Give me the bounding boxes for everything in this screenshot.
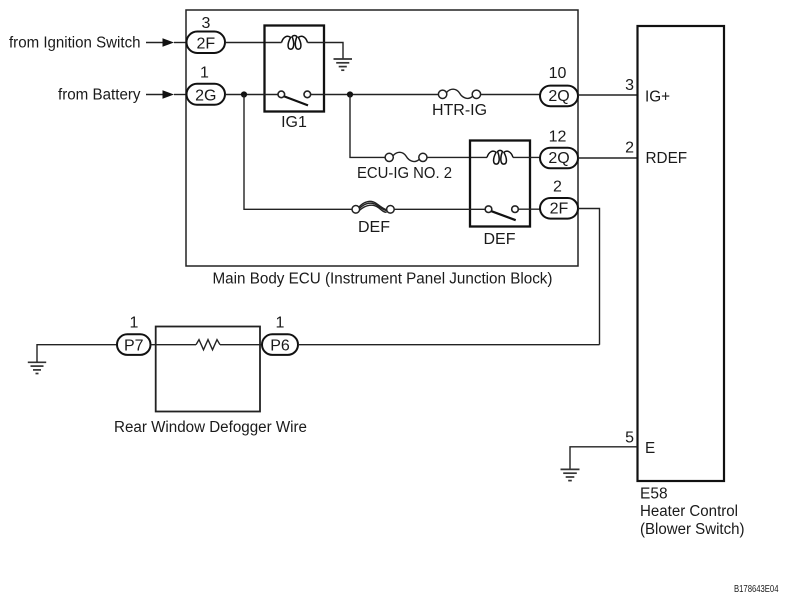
svg-text:HTR-IG: HTR-IG (432, 102, 487, 119)
svg-text:2G: 2G (195, 87, 216, 104)
wire: DEF breaker to DEF relay switch (394, 208, 485, 210)
ground (rear defogger wire, left) (28, 362, 46, 373)
svg-text:2Q: 2Q (548, 88, 569, 105)
wire: resistor to P6 (220, 344, 262, 346)
svg-text:Rear Window Defogger Wire: Rear Window Defogger Wire (114, 419, 307, 436)
svg-text:10: 10 (549, 65, 567, 82)
pin 10 of connector 2Q (549, 65, 567, 82)
svg-text:3: 3 (202, 15, 211, 32)
connector P6 (262, 334, 298, 355)
svg-text:2Q: 2Q (548, 150, 569, 167)
fuse HTR-IG (438, 89, 480, 98)
connector block E58 outline (638, 26, 725, 481)
label: from Battery (58, 87, 141, 104)
wire: ignition switch lead with arrow (146, 38, 187, 46)
ground (IG1 coil) (334, 59, 353, 70)
label: Heater Control (640, 503, 738, 520)
defogger wire box (156, 327, 260, 412)
wire: 2F pin 2 down to defogger net (578, 209, 600, 345)
wire: DEF switch to connector 2F pin 2 (518, 208, 540, 210)
svg-text:2: 2 (553, 178, 562, 195)
wire: P6 to 2F net (298, 344, 600, 346)
svg-text:from Ignition Switch: from Ignition Switch (9, 35, 141, 52)
relay IG1 coil (282, 36, 308, 50)
wire: battery junction to DEF circuit breaker (244, 95, 352, 210)
pin 12 of connector 2Q (549, 129, 567, 146)
pin 5 of E58 (625, 429, 634, 446)
svg-text:3: 3 (625, 77, 634, 94)
relay IG1 box (265, 26, 325, 112)
svg-text:DEF: DEF (484, 231, 516, 248)
wire: ground to connector P7 (37, 345, 117, 363)
pin 2 of connector 2F (output) (553, 178, 562, 195)
pin 1 of connector 2G (200, 65, 209, 82)
connector 2Q pin 12 (RDEF feed) (540, 148, 578, 169)
svg-text:(Blower Switch): (Blower Switch) (640, 521, 745, 538)
svg-text:RDEF: RDEF (646, 150, 688, 167)
svg-text:2: 2 (625, 140, 634, 157)
wire: 2Q pin 10 to E58 pin 3 (578, 94, 638, 96)
wire: 2F to IG1 coil (225, 42, 282, 44)
connector P7 (117, 334, 151, 355)
label: E (E58 terminal) (645, 440, 655, 457)
svg-text:ECU-IG NO. 2: ECU-IG NO. 2 (357, 165, 452, 182)
svg-text:IG+: IG+ (645, 88, 670, 105)
pin 1 of connector P7 (130, 315, 139, 332)
wire: E58 pin 5 (E) to ground (570, 447, 638, 470)
svg-text:IG1: IG1 (281, 114, 307, 131)
relay DEF box (470, 141, 530, 227)
svg-text:B178643E04: B178643E04 (734, 584, 779, 595)
ground (E58 pin E) (561, 469, 580, 480)
svg-text:1: 1 (130, 315, 139, 332)
label: DEF (circuit breaker) (358, 219, 390, 236)
svg-text:12: 12 (549, 129, 567, 146)
pin 3 of connector 2F (top) (202, 15, 211, 32)
wire: 2Q pin 12 to E58 pin 2 (578, 157, 638, 159)
svg-text:Main Body ECU (Instrument Pane: Main Body ECU (Instrument Panel Junction… (213, 270, 553, 287)
svg-text:P6: P6 (270, 337, 290, 354)
svg-text:DEF: DEF (358, 219, 390, 236)
label: IG1 (281, 114, 307, 131)
label: from Ignition Switch (9, 35, 141, 52)
connector 2F pin 2 (defogger feed) (540, 198, 578, 219)
wire: ECU-IG fuse to DEF relay coil (427, 156, 487, 158)
svg-text:P7: P7 (124, 337, 144, 354)
svg-text:2F: 2F (196, 35, 215, 52)
label: IG+ (E58 terminal) (645, 88, 670, 105)
pin 1 of connector P6 (276, 315, 285, 332)
resistor (defogger grid element) (196, 340, 220, 350)
svg-text:2F: 2F (550, 201, 569, 218)
relay DEF coil (487, 150, 513, 164)
label: RDEF (E58 terminal) (646, 150, 688, 167)
wire: HTR-IG fuse to connector 2Q pin 10 (481, 94, 540, 96)
label: Rear Window Defogger Wire (114, 419, 307, 436)
svg-text:from Battery: from Battery (58, 87, 141, 104)
circuit breaker DEF (352, 201, 394, 213)
junction block outline: Main Body ECU (186, 10, 578, 266)
fuse ECU-IG NO. 2 (385, 152, 427, 161)
pin 3 of E58 (625, 77, 634, 94)
svg-text:E: E (645, 440, 655, 457)
label: ECU-IG NO. 2 (357, 165, 452, 182)
label: Main Body ECU (Instrument Panel Junction Block) (213, 270, 553, 287)
wire: 2G to IG1 switch (225, 94, 278, 96)
relay DEF switch (485, 206, 518, 220)
wire: P7 to resistor element (151, 344, 197, 346)
junction node (battery / DEF branch) (241, 91, 247, 97)
junction node (HTR-IG / ECU-IG branch) (347, 91, 353, 97)
wire: DEF coil to connector 2Q pin 12 (513, 156, 540, 158)
svg-text:E58: E58 (640, 486, 668, 503)
wire: IG1 coil to ground (308, 43, 344, 60)
connector 2F (ignition input) (187, 32, 226, 54)
label: drawing code B178643E04 (734, 584, 779, 595)
connector 2Q pin 10 (IG+ feed) (540, 86, 578, 107)
relay IG1 switch (278, 91, 311, 105)
pin 2 of E58 (625, 140, 634, 157)
connector 2G (battery input) (187, 84, 226, 105)
wire: branch junction to ECU-IG NO.2 fuse (350, 95, 385, 158)
label: HTR-IG (432, 102, 487, 119)
wire: IG1 switch to HTR-IG fuse (311, 94, 439, 96)
svg-text:1: 1 (200, 65, 209, 82)
svg-text:Heater Control: Heater Control (640, 503, 738, 520)
wire: battery lead with arrow (146, 90, 187, 98)
svg-text:1: 1 (276, 315, 285, 332)
label: (Blower Switch) (640, 521, 745, 538)
svg-text:5: 5 (625, 429, 634, 446)
label: E58 (640, 486, 668, 503)
label: DEF (relay) (484, 231, 516, 248)
